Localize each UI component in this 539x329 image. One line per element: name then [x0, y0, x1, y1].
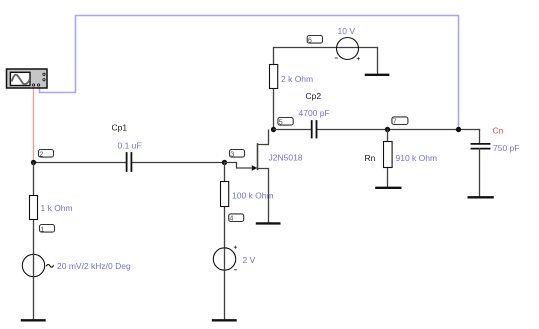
wire main signal row	[34, 162, 225, 164]
junction node 2	[31, 160, 36, 165]
ground source JFET	[257, 222, 279, 224]
node 6	[307, 35, 322, 44]
svg-text:1 k Ohm: 1 k Ohm	[41, 203, 73, 213]
svg-text:750 pF: 750 pF	[493, 143, 519, 153]
wire oscilloscope channel B (blue)	[40, 16, 459, 130]
resistor 1 kOhm	[30, 196, 38, 220]
resistor 2 kOhm	[270, 65, 278, 89]
svg-text:10 V: 10 V	[338, 26, 356, 36]
capacitor Cp1	[127, 153, 132, 171]
ground Rn	[376, 187, 400, 189]
transistor Q1 J2N5018	[252, 130, 269, 223]
wire Cn to ground	[479, 149, 481, 197]
svg-text:Rn: Rn	[365, 153, 376, 163]
wire gate jog	[225, 163, 252, 169]
node 2	[39, 149, 54, 158]
svg-text:Cp2: Cp2	[306, 91, 322, 101]
capacitor Cn	[472, 144, 490, 149]
wire drain row	[274, 130, 480, 144]
svg-text:Cn: Cn	[493, 126, 504, 136]
ground left	[22, 319, 45, 321]
svg-text:20 mV/2 kHz/0 Deg: 20 mV/2 kHz/0 Deg	[57, 261, 131, 271]
junction node 7	[385, 127, 390, 132]
svg-text:2 k Ohm: 2 k Ohm	[281, 74, 313, 84]
svg-text:3: 3	[230, 149, 234, 158]
svg-text:2 V: 2 V	[243, 255, 256, 265]
svg-text:Cp1: Cp1	[112, 122, 128, 132]
svg-text:1: 1	[40, 224, 44, 233]
ground 10V	[366, 74, 388, 76]
svg-text:100 k Ohm: 100 k Ohm	[232, 191, 274, 201]
svg-text:5: 5	[279, 117, 283, 126]
svg-text:J2N5018: J2N5018	[269, 153, 303, 163]
wire 2k branch	[273, 48, 275, 130]
wire left branch	[33, 163, 35, 320]
source V1 AC 20mV	[22, 254, 53, 276]
node 1	[40, 224, 55, 233]
svg-text:4: 4	[229, 214, 233, 223]
node 5	[278, 117, 293, 126]
junction blue wire output	[456, 127, 461, 132]
wire 100k branch	[224, 163, 226, 320]
svg-text:910 k Ohm: 910 k Ohm	[396, 153, 438, 163]
svg-text:4700 pF: 4700 pF	[299, 108, 330, 118]
svg-text:7: 7	[393, 117, 397, 126]
wire top rail	[274, 48, 378, 75]
ground Cn	[469, 196, 493, 198]
junction node 3	[222, 160, 227, 165]
node 4	[229, 214, 244, 223]
svg-text:2: 2	[39, 149, 43, 158]
svg-text:6: 6	[308, 35, 312, 44]
junction drain node	[271, 127, 276, 132]
wire oscilloscope channel A (red)	[33, 88, 35, 161]
svg-text:0.1 uF: 0.1 uF	[118, 141, 142, 151]
resistor 100 kOhm	[221, 182, 229, 207]
source V3 2V	[213, 246, 236, 271]
ground 2V branch	[213, 319, 236, 321]
oscilloscope XSC1	[7, 69, 48, 88]
capacitor Cp2	[312, 121, 317, 138]
node 3	[230, 149, 245, 158]
source V2 10V	[335, 38, 359, 60]
node 7	[392, 117, 408, 126]
wire Rn branch	[387, 130, 389, 187]
resistor Rn 910 kOhm	[384, 142, 393, 168]
